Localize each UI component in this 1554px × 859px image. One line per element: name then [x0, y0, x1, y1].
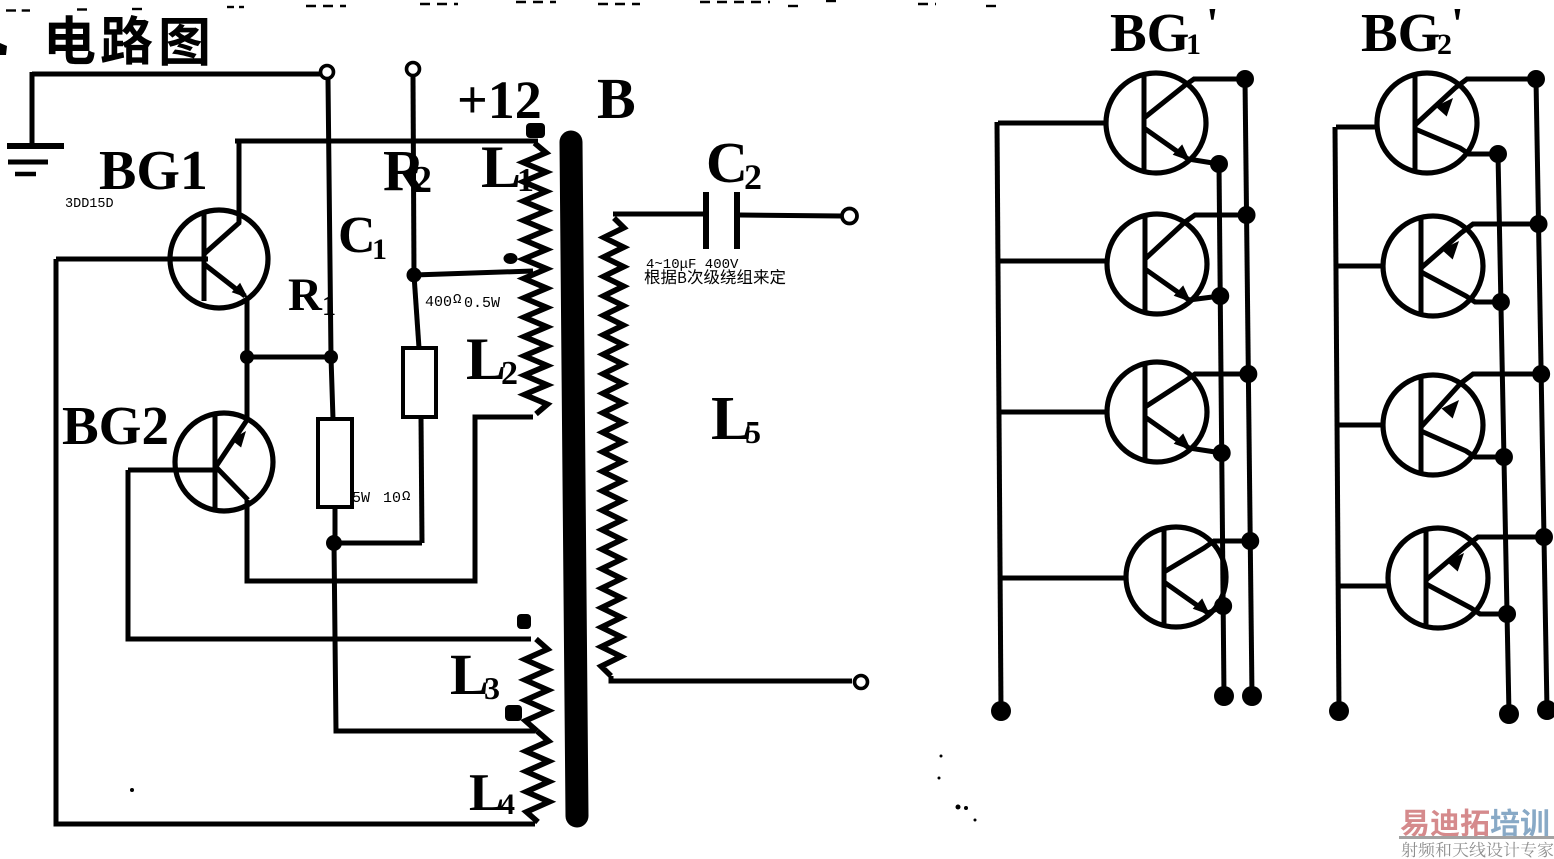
svg-text:3: 3: [484, 670, 500, 706]
svg-text:Ω: Ω: [402, 489, 410, 505]
svg-text:BG1: BG1: [99, 140, 208, 202]
svg-text:4~10μF 400V: 4~10μF 400V: [646, 257, 739, 273]
svg-text:L: L: [450, 642, 489, 707]
svg-text:': ': [1206, 0, 1219, 49]
svg-text:+12: +12: [457, 70, 542, 130]
svg-text:4: 4: [500, 788, 515, 821]
svg-text:1: 1: [1186, 28, 1201, 61]
svg-text:L: L: [481, 134, 521, 200]
svg-text:2: 2: [413, 159, 432, 201]
svg-text:3DD15D: 3DD15D: [65, 197, 114, 212]
svg-text:R: R: [288, 269, 323, 321]
svg-text:2: 2: [1437, 28, 1452, 61]
svg-text:400: 400: [425, 294, 452, 311]
svg-text:1: 1: [372, 233, 387, 266]
svg-text:C: C: [338, 207, 376, 264]
svg-text:Ω: Ω: [453, 292, 461, 308]
svg-text:1: 1: [322, 291, 336, 322]
svg-text:5: 5: [745, 414, 761, 450]
svg-text:B: B: [597, 66, 636, 131]
svg-text:BG2: BG2: [62, 395, 169, 456]
svg-text:BG: BG: [1361, 2, 1440, 63]
svg-text:0.5W: 0.5W: [464, 295, 500, 312]
svg-text:2: 2: [501, 355, 518, 392]
svg-text:10: 10: [383, 490, 401, 507]
svg-text:': ': [1451, 0, 1464, 49]
svg-text:BG: BG: [1110, 2, 1189, 63]
svg-text:C: C: [706, 130, 748, 195]
svg-text:1: 1: [517, 162, 534, 199]
svg-text:2: 2: [744, 157, 762, 197]
svg-text:5W: 5W: [352, 490, 370, 507]
